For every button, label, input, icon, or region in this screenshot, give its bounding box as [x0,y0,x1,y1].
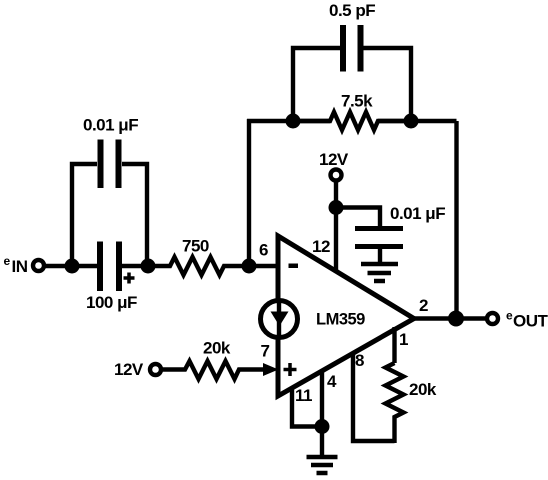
wire junction to ground [320,427,324,456]
wire bypass cap to ground [378,249,382,262]
wire 12V to pin 12 [334,181,338,271]
capacitor 0.01uF (input) plates [98,140,104,189]
node pin6 junction [242,259,257,274]
input terminal eIN [33,260,44,271]
svg-text:12V: 12V [319,150,349,169]
capacitor C 100uF plates [97,242,103,292]
capacitor 0.01uF bypass plates [355,226,403,231]
wire left riser to 0.01uF branch [72,164,97,266]
node feedback left junction [286,114,301,129]
svg-text:e: e [506,309,513,323]
pin 4 wire [320,370,324,427]
resistor 20k (input) [161,361,264,379]
node output junction [448,311,464,327]
wire feedback right riser to output [454,121,458,319]
arrow into pin 7 [263,363,279,376]
svg-text:0.01 μF: 0.01 μF [83,116,138,135]
pin 2 output wire [414,316,487,320]
node input junction left [65,259,80,274]
svg-text:2: 2 [419,296,428,315]
current source vertical wire [277,301,281,337]
resistor 20k (output) vertical [386,363,404,443]
capacitor 100uF polarity plus [124,273,135,284]
node feedback right junction [404,114,419,129]
terminal 12V (top) [331,170,342,181]
ground (bypass cap) [361,264,398,281]
wire 100uF to junction right [122,264,148,268]
op-amp U1 LM359 triangle [278,236,414,396]
svg-text:LM359: LM359 [316,311,365,329]
node 12V junction [329,200,344,215]
svg-text:7.5k: 7.5k [341,92,373,111]
svg-text:0.01 μF: 0.01 μF [390,204,445,223]
svg-text:6: 6 [259,241,268,260]
op-amp inverting input minus sign [289,264,299,269]
wire junction to 100uF [72,264,97,268]
wire junction to bypass cap [336,208,380,227]
svg-text:12: 12 [312,237,330,256]
capacitor 0.5pF plates [340,25,346,72]
svg-text:IN: IN [12,257,28,276]
wire feedback left riser [247,119,251,266]
svg-text:750: 750 [182,237,209,256]
wire feedback horizontal [247,119,330,123]
node input junction right [141,259,156,274]
wire right riser from 0.01uF branch [122,164,147,266]
svg-text:4: 4 [327,372,337,391]
svg-text:12V: 12V [114,360,144,379]
svg-text:20k: 20k [203,339,231,358]
svg-text:8: 8 [355,351,364,370]
current source arrow [271,312,289,327]
svg-text:OUT: OUT [513,312,548,331]
svg-text:100 μF: 100 μF [86,293,137,312]
svg-text:7: 7 [261,342,270,361]
pin 8 wire [353,352,395,441]
terminal 12V (left) [150,364,161,375]
svg-text:1: 1 [399,330,408,349]
svg-text:e: e [4,254,11,268]
svg-text:11: 11 [295,386,312,405]
node ground junction [315,419,330,434]
op-amp noninverting input plus sign [284,363,297,376]
current source symbol circle [261,301,298,338]
resistor 7.5k [293,112,411,130]
svg-text:20k: 20k [409,380,437,399]
output terminal eOUT [487,313,498,324]
wire 0.5pF branch left riser [293,48,340,121]
ground (main) [307,457,338,473]
wire pin6 junction to op-amp [249,264,279,268]
wire 0.5pF branch right riser [363,48,411,121]
svg-text:0.5 pF: 0.5 pF [329,1,375,20]
pin 11 wire [292,387,322,427]
resistor 750 [148,257,249,275]
wire input to junction [44,264,72,268]
pin 1 wire upper [392,327,396,363]
